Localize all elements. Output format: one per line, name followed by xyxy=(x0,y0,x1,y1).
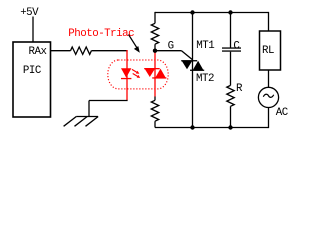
svg-text:PIC: PIC xyxy=(23,65,42,77)
annotation arrow xyxy=(129,35,140,53)
AC bottom lead xyxy=(268,108,270,129)
wire LED cathode to ground (horizontal) xyxy=(89,100,128,102)
wire gate G xyxy=(155,50,182,52)
svg-text:G: G xyxy=(168,41,174,53)
resistor R2 gate resistor xyxy=(151,23,158,44)
svg-text:MT2: MT2 xyxy=(196,73,214,85)
svg-text:Photo-Triac: Photo-Triac xyxy=(68,28,134,40)
resistor R2 top lead xyxy=(154,12,156,23)
load RL box xyxy=(260,31,281,70)
resistor R2 bottom lead xyxy=(154,44,156,51)
svg-text:MT1: MT1 xyxy=(196,40,214,52)
LED anode drop wire (red) xyxy=(126,50,128,101)
photo-triac detector lead (red) xyxy=(154,52,156,97)
wire RAx pin to R1 xyxy=(51,50,71,52)
svg-text:AC: AC xyxy=(276,107,289,119)
AC sine glyph xyxy=(263,94,273,97)
light arrow 2 xyxy=(133,74,141,78)
photo-triac detector symbol xyxy=(144,68,166,79)
wire R1 to LED anode xyxy=(91,50,127,52)
triac main vertical wire xyxy=(192,13,194,128)
svg-text:R: R xyxy=(236,83,243,95)
load branch top lead xyxy=(268,12,270,31)
wire C to R xyxy=(230,52,232,86)
opto-coupler dashed outline xyxy=(108,60,168,89)
photo-triac lower lead black xyxy=(154,97,156,101)
snubber cap top lead xyxy=(230,13,232,48)
AC source circle xyxy=(258,87,278,107)
svg-text:RAx: RAx xyxy=(29,46,47,58)
IC U1 PIC box xyxy=(13,42,51,117)
capacitor C xyxy=(222,47,241,51)
wire gate diagonal xyxy=(182,51,193,60)
resistor R3 bottom lead xyxy=(154,121,156,127)
node top rail / snubber xyxy=(228,10,232,14)
triac Q1 symbol xyxy=(181,60,204,71)
svg-text:+5V: +5V xyxy=(20,7,39,19)
resistor R snubber xyxy=(227,85,234,106)
wire ground drop xyxy=(88,101,90,117)
svg-text:RL: RL xyxy=(262,45,274,57)
wire RL to AC xyxy=(268,70,270,88)
+5V lead wire xyxy=(32,17,34,43)
resistor R1 series LED resistor xyxy=(71,47,92,54)
ground xyxy=(64,117,99,127)
svg-text:C: C xyxy=(233,40,240,52)
node bottom rail / snubber xyxy=(228,125,232,129)
node bottom rail / triac xyxy=(190,125,194,129)
node gate junction xyxy=(153,49,157,53)
resistor R3 photo-triac series xyxy=(151,100,158,121)
LED D1 xyxy=(121,68,131,77)
light arrow 1 xyxy=(132,69,140,73)
top rail xyxy=(155,12,269,14)
bottom rail xyxy=(155,127,269,129)
resistor R bottom lead xyxy=(230,106,232,127)
node top rail / triac xyxy=(190,10,194,14)
